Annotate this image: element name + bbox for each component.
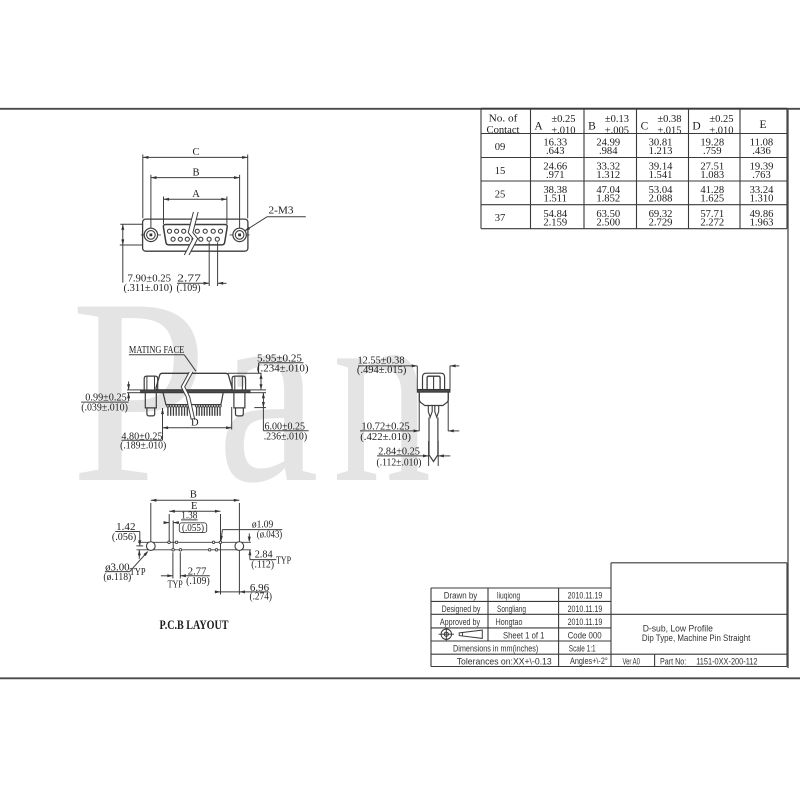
svg-text:15: 15 bbox=[495, 166, 506, 177]
svg-text:±0.25: ±0.25 bbox=[551, 114, 575, 125]
svg-text:E: E bbox=[759, 119, 766, 131]
svg-text:(.189±.010): (.189±.010) bbox=[120, 440, 166, 452]
svg-text:Part No:: Part No: bbox=[660, 656, 686, 667]
svg-text:1.511: 1.511 bbox=[544, 194, 567, 205]
svg-text:1151-0XX-200-112: 1151-0XX-200-112 bbox=[696, 656, 757, 667]
svg-text:(ø.118): (ø.118) bbox=[103, 571, 131, 583]
svg-text:1.213: 1.213 bbox=[649, 146, 673, 157]
svg-text:2-M3: 2-M3 bbox=[269, 204, 295, 216]
svg-text:±0.25: ±0.25 bbox=[709, 114, 733, 125]
svg-text:±.015: ±.015 bbox=[657, 126, 681, 137]
svg-text:Approved by: Approved by bbox=[440, 617, 480, 628]
svg-text:25: 25 bbox=[495, 189, 506, 200]
svg-text:D: D bbox=[191, 417, 199, 428]
svg-text:2.159: 2.159 bbox=[543, 217, 567, 228]
svg-text:C: C bbox=[192, 147, 199, 158]
svg-text:37: 37 bbox=[495, 213, 506, 224]
svg-text:2.500: 2.500 bbox=[596, 217, 620, 228]
svg-text:.643: .643 bbox=[546, 146, 565, 157]
svg-text:1.312: 1.312 bbox=[596, 170, 620, 181]
svg-text:Contact: Contact bbox=[487, 125, 520, 136]
svg-text:(.234±.010): (.234±.010) bbox=[257, 362, 309, 374]
svg-text:2.729: 2.729 bbox=[649, 217, 673, 228]
svg-text:B: B bbox=[190, 490, 197, 501]
svg-text:1.310: 1.310 bbox=[750, 194, 774, 205]
svg-text:Drawn by: Drawn by bbox=[444, 591, 478, 602]
svg-text:(.109): (.109) bbox=[177, 282, 201, 294]
svg-text:2010.11.19: 2010.11.19 bbox=[568, 604, 603, 615]
svg-text:.236±.010): .236±.010) bbox=[264, 430, 308, 442]
svg-text:liuqiong: liuqiong bbox=[497, 591, 520, 602]
svg-text:2.272: 2.272 bbox=[700, 217, 724, 228]
svg-text:±.010: ±.010 bbox=[551, 126, 575, 137]
svg-text:(.112±.010): (.112±.010) bbox=[377, 456, 422, 468]
svg-text:±0.38: ±0.38 bbox=[657, 114, 681, 125]
svg-text:Designed by: Designed by bbox=[442, 604, 481, 615]
svg-text:B: B bbox=[192, 167, 199, 178]
svg-text:Songliang: Songliang bbox=[497, 604, 526, 615]
svg-text:Scale 1:1: Scale 1:1 bbox=[569, 644, 596, 655]
svg-text:.763: .763 bbox=[752, 170, 771, 181]
svg-text:Angles+\-2°: Angles+\-2° bbox=[570, 656, 608, 667]
svg-text:Dip Type, Machine Pin Straight: Dip Type, Machine Pin Straight bbox=[642, 633, 751, 644]
svg-text:C: C bbox=[641, 121, 649, 133]
svg-text:(ø.043): (ø.043) bbox=[257, 528, 283, 540]
svg-text:(.056): (.056) bbox=[112, 531, 137, 543]
svg-text:TYP: TYP bbox=[276, 556, 291, 567]
svg-text:MATING FACE: MATING FACE bbox=[129, 345, 184, 356]
svg-text:(.109): (.109) bbox=[186, 575, 210, 587]
svg-text:±.010: ±.010 bbox=[709, 126, 733, 137]
svg-text:1.625: 1.625 bbox=[700, 194, 724, 205]
svg-text:(.274): (.274) bbox=[250, 590, 273, 602]
svg-text:1.541: 1.541 bbox=[649, 170, 673, 181]
svg-text:2010.11.19: 2010.11.19 bbox=[568, 591, 603, 602]
svg-text:Code 000: Code 000 bbox=[568, 630, 602, 641]
svg-text:.971: .971 bbox=[546, 170, 565, 181]
svg-text:n: n bbox=[333, 244, 432, 538]
svg-text:B: B bbox=[588, 121, 596, 133]
svg-text:A: A bbox=[192, 189, 200, 200]
svg-text:2.088: 2.088 bbox=[649, 194, 673, 205]
svg-text:1.963: 1.963 bbox=[750, 217, 774, 228]
svg-text:09: 09 bbox=[495, 142, 506, 153]
svg-text:.984: .984 bbox=[599, 146, 618, 157]
svg-text:(.422±.010): (.422±.010) bbox=[360, 431, 411, 443]
svg-text:.759: .759 bbox=[703, 146, 722, 157]
svg-text:(.494±.015): (.494±.015) bbox=[357, 364, 407, 376]
svg-text:Sheet 1 of 1: Sheet 1 of 1 bbox=[503, 630, 545, 641]
svg-text:Ver A0: Ver A0 bbox=[622, 656, 640, 667]
svg-text:1.083: 1.083 bbox=[700, 170, 724, 181]
svg-text:(.039±.010): (.039±.010) bbox=[81, 402, 128, 414]
svg-text:2010.11.19: 2010.11.19 bbox=[568, 617, 603, 628]
svg-text:.436: .436 bbox=[752, 146, 771, 157]
svg-text:±.005: ±.005 bbox=[605, 126, 629, 137]
svg-text:(.055): (.055) bbox=[182, 523, 204, 534]
svg-text:Tolerances on:XX+\-0.13: Tolerances on:XX+\-0.13 bbox=[457, 656, 552, 667]
svg-text:±0.13: ±0.13 bbox=[605, 114, 629, 125]
svg-text:TYP: TYP bbox=[168, 579, 183, 590]
svg-text:D: D bbox=[692, 121, 700, 133]
svg-text:A: A bbox=[534, 121, 543, 133]
svg-text:P.C.B LAYOUT: P.C.B LAYOUT bbox=[160, 618, 230, 632]
svg-text:Hongtao: Hongtao bbox=[496, 617, 523, 628]
svg-text:(.112): (.112) bbox=[251, 559, 274, 571]
svg-text:(.311±.010): (.311±.010) bbox=[124, 282, 173, 294]
svg-text:1.852: 1.852 bbox=[596, 194, 620, 205]
svg-text:Dimensions in mm(inches): Dimensions in mm(inches) bbox=[453, 644, 538, 655]
svg-text:No. of: No. of bbox=[489, 114, 518, 125]
